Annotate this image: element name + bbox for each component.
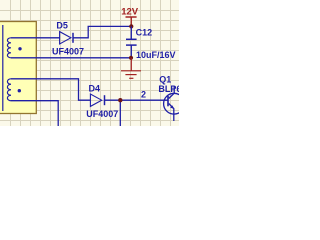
wire: D5 cathode to +12V node bbox=[73, 26, 131, 37]
svg-text:D5: D5 bbox=[56, 20, 68, 30]
wire: lower winding bottom lead going off bottom edge bbox=[11, 101, 58, 126]
winding upper (secondary 1) bbox=[7, 38, 11, 58]
power port +12V bbox=[126, 17, 137, 26]
winding lower (secondary 2) bbox=[7, 79, 11, 101]
transistor Q1 bbox=[164, 87, 185, 122]
polarity dot lower bbox=[18, 89, 21, 92]
diode D5 bbox=[60, 32, 73, 44]
svg-text:D4: D4 bbox=[89, 84, 101, 94]
schematic background bbox=[0, 0, 179, 126]
junction node cap/ground rail bbox=[129, 56, 133, 60]
junction node D4/Q1 bbox=[118, 98, 122, 102]
wire: junction down to bottom edge bbox=[119, 100, 121, 126]
polarity dot upper bbox=[18, 47, 21, 50]
svg-text:2: 2 bbox=[141, 89, 146, 99]
svg-text:UF4007: UF4007 bbox=[86, 109, 118, 119]
wire: upper winding bottom lead to C12- rail bbox=[11, 57, 131, 59]
wire: upper winding top lead to D5 anode bbox=[11, 37, 60, 39]
diode D4 bbox=[90, 94, 104, 106]
ground symbol bbox=[121, 58, 141, 79]
junction node 12V rail bbox=[129, 24, 133, 28]
svg-text:UF4007: UF4007 bbox=[52, 46, 84, 56]
wire: D4 cathode to Q1 base bbox=[105, 99, 169, 101]
svg-text:10uF/16V: 10uF/16V bbox=[136, 50, 176, 60]
wire: lower winding top lead to D4 anode bbox=[11, 79, 90, 100]
svg-text:12V: 12V bbox=[121, 6, 139, 17]
svg-text:BLP6G: BLP6G bbox=[158, 84, 179, 94]
capacitor C12 bbox=[126, 26, 137, 57]
svg-text:C12: C12 bbox=[136, 28, 153, 38]
transformer T body bbox=[0, 22, 36, 114]
transformer core line bbox=[2, 25, 4, 111]
